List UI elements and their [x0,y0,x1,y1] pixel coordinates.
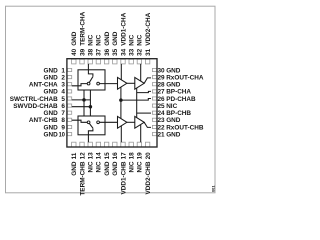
junction SWCTRL node [82,98,86,102]
svg-text:NIC: NIC [129,161,136,172]
wire amp A1 to amp A2 [127,82,135,84]
pin 4 pad [67,90,71,93]
svg-text:BP-CHA: BP-CHA [166,89,191,96]
svg-text:VDD1-CHB: VDD1-CHB [120,161,127,194]
svg-text:RxOUT-CHB: RxOUT-CHB [166,124,204,131]
svg-text:13: 13 [88,152,95,160]
svg-text:25: 25 [158,103,166,110]
svg-text:7: 7 [61,110,65,117]
svg-text:NIC: NIC [137,161,144,172]
pin 13 pad [88,142,92,147]
svg-text:ANT-CHB: ANT-CHB [29,117,58,124]
amp B1 [118,116,127,128]
pin 17 pad [121,142,125,147]
pin 15 pad [104,142,108,147]
svg-text:TERM-CHA: TERM-CHA [79,11,86,45]
switch CHB throw contact right [97,121,100,124]
svg-text:34: 34 [120,48,127,56]
svg-text:39: 39 [79,48,86,56]
wire SWCTRL-CHAB from pin 5 [72,99,91,101]
wire switch CHB output to amp B1 [100,121,118,123]
wire amp B1 to amp B2 [127,121,135,123]
svg-text:SWVDD-CHAB: SWVDD-CHAB [13,103,58,110]
svg-text:14: 14 [96,152,103,160]
svg-text:8: 8 [61,117,65,124]
pin 20 pad [145,142,149,147]
svg-text:GND: GND [43,110,58,117]
svg-text:37: 37 [96,48,103,56]
pin 36 pad [104,59,108,64]
svg-text:9: 9 [61,124,65,131]
svg-text:3: 3 [61,82,65,89]
pin 24 pad [152,111,156,114]
wire amp A2 output to RxOUT-CHA [144,78,151,83]
svg-text:38: 38 [88,48,95,56]
pin 40 pad [72,59,76,64]
svg-text:22: 22 [158,124,166,131]
svg-text:NIC: NIC [96,34,103,45]
figure border frame [6,6,216,193]
pin 35 pad [113,59,117,64]
pin 12 pad [80,142,84,147]
wire PD-CHAB to pin 26 [121,99,151,101]
wire VDD2-CHB to amp B2 [140,125,142,143]
svg-text:GND: GND [43,67,58,74]
svg-text:20: 20 [145,152,152,160]
svg-text:GND: GND [166,131,181,138]
svg-text:SWCTRL-CHAB: SWCTRL-CHAB [10,96,58,103]
svg-text:27: 27 [158,89,166,96]
svg-text:12: 12 [79,152,86,160]
pin 28 pad [152,83,156,86]
wire amp B2 output to RxOUT-CHB [144,122,151,127]
pin 29 pad [152,76,156,79]
svg-text:35: 35 [112,48,119,56]
switch CHA throw contact left [87,82,90,85]
wire VDD1-CHB to amp B1 [120,126,122,142]
wire ANT-CHB input to switch CHB [72,120,87,122]
svg-text:33: 33 [129,48,136,56]
svg-text:BP-CHB: BP-CHB [166,110,191,117]
svg-text:NIC: NIC [88,161,95,172]
pin 7 pad [67,111,71,114]
switch CHB arm [89,124,93,129]
package outline U1 [67,59,157,147]
svg-text:28: 28 [158,82,166,89]
pin 19 pad [137,142,141,147]
svg-text:24: 24 [158,110,166,117]
pin 33 pad [129,59,133,64]
wire amp enable vertical A1-B1 [120,87,122,118]
svg-text:TERM-CHB: TERM-CHB [79,161,86,195]
wire BP-CHB to pin 24 [137,112,151,114]
pin 3 pad [67,83,71,86]
pin 21 pad [152,133,156,136]
svg-text:36: 36 [104,48,111,56]
svg-text:PD-CHAB: PD-CHAB [166,96,196,103]
svg-text:GND: GND [71,161,78,176]
svg-text:26: 26 [158,96,166,103]
pin 27 pad [152,90,156,93]
switch CHA arm [89,76,93,82]
wire VDD1-CHA to amp A1 [120,64,122,80]
wire SWVDD-CHAB from pin 6 [72,106,91,108]
svg-text:1: 1 [61,67,65,74]
svg-text:32: 32 [137,48,144,56]
pin 39 pad [80,59,84,64]
switch box CHB [78,116,105,135]
svg-text:21: 21 [158,131,166,138]
wire TERM-CHB to switch CHB pole [88,129,93,143]
svg-text:GND: GND [43,89,58,96]
svg-text:29: 29 [158,74,166,81]
wire bypass vertical A2-B2 [136,88,138,118]
svg-text:001: 001 [211,185,216,192]
svg-text:15: 15 [104,152,111,160]
amp B2 [135,116,144,128]
pin 22 pad [152,125,156,128]
pin 8 pad [67,118,71,121]
svg-text:GND: GND [166,117,181,124]
pin 31 pad [145,59,149,64]
pin 5 pad [67,97,71,100]
svg-text:11: 11 [71,152,78,159]
pin 32 pad [137,59,141,64]
wire BP-CHA to pin 27 [137,91,151,92]
svg-text:16: 16 [112,152,119,160]
switch CHA throw contact right [97,82,100,85]
pin 6 pad [67,104,71,107]
svg-text:NIC: NIC [166,103,177,110]
junction SWVDD node [89,105,93,109]
switch CHB throw contact left [87,121,90,124]
svg-text:GND: GND [104,31,111,46]
svg-text:4: 4 [61,89,65,96]
pin 25 pad [152,104,156,107]
svg-text:5: 5 [61,96,65,103]
svg-text:NIC: NIC [129,34,136,45]
wire VDD2-CHA to amp A2 [140,64,142,81]
svg-text:2: 2 [61,74,65,81]
svg-text:40: 40 [71,48,78,56]
wire switch control vertical CHA-CHB [83,90,85,116]
pin 23 pad [152,118,156,121]
svg-text:ANT-CHA: ANT-CHA [29,82,58,89]
svg-text:NIC: NIC [137,34,144,45]
svg-text:NIC: NIC [88,34,95,45]
pin 34 pad [121,59,125,64]
svg-text:VDD2-CHA: VDD2-CHA [145,12,152,45]
wire ANT-CHA input to switch CHA [72,84,87,86]
pin 37 pad [96,59,100,64]
svg-text:18: 18 [129,152,136,160]
pin 10 pad [67,133,71,136]
svg-text:GND: GND [112,31,119,46]
switch box CHA [78,70,105,90]
pin 38 pad [88,59,92,64]
pin 30 pad [152,68,156,71]
svg-text:NIC: NIC [96,161,103,172]
pin 9 pad [67,125,71,128]
svg-text:GND: GND [166,82,181,89]
svg-text:GND: GND [71,31,78,46]
svg-text:6: 6 [61,103,65,110]
svg-text:30: 30 [158,67,166,74]
svg-text:GND: GND [43,124,58,131]
svg-text:31: 31 [145,48,152,56]
svg-text:19: 19 [137,152,144,160]
svg-text:VDD2-CHB: VDD2-CHB [145,161,152,194]
pin 18 pad [129,142,133,147]
wire TERM-CHA to switch CHA pole [88,64,93,76]
svg-text:GND: GND [166,67,181,74]
amp A1 [118,77,127,89]
pin 14 pad [96,142,100,147]
pin 1 pad [67,68,71,71]
svg-text:GND: GND [43,131,58,138]
pin 11 pad [72,142,76,147]
wire switch supply vertical CHA-CHB [89,90,91,116]
svg-text:GND: GND [104,161,111,176]
svg-text:23: 23 [158,117,166,124]
wire switch CHA output to amp A1 [100,83,118,85]
pin 16 pad [113,142,117,147]
svg-text:VDD1-CHA: VDD1-CHA [120,12,127,45]
pin 2 pad [67,76,71,79]
svg-text:RxOUT-CHA: RxOUT-CHA [166,74,204,81]
amp A2 [135,77,144,89]
pin 26 pad [152,97,156,100]
svg-text:17: 17 [120,152,127,160]
junction PD node [119,98,123,102]
svg-text:10: 10 [59,131,66,138]
svg-text:GND: GND [112,161,119,176]
svg-text:GND: GND [43,74,58,81]
